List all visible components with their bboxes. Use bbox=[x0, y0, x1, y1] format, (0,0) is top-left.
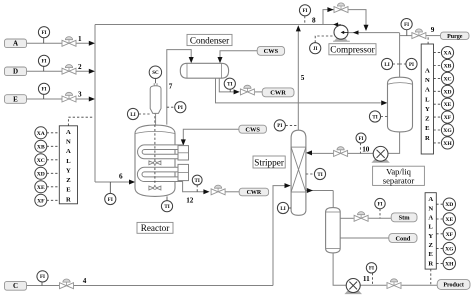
svg-text:D: D bbox=[13, 68, 18, 76]
svg-text:CWR: CWR bbox=[270, 90, 286, 97]
svg-text:E: E bbox=[13, 95, 18, 103]
svg-text:FI: FI bbox=[378, 202, 383, 207]
svg-text:FI: FI bbox=[40, 275, 45, 280]
svg-text:A: A bbox=[66, 148, 71, 155]
svg-text:CWS: CWS bbox=[245, 127, 260, 134]
svg-text:E: E bbox=[66, 187, 71, 194]
svg-text:L: L bbox=[425, 96, 430, 103]
svg-text:R: R bbox=[428, 260, 433, 267]
svg-text:CWR: CWR bbox=[247, 190, 262, 196]
svg-text:PI: PI bbox=[409, 63, 414, 68]
svg-text:XA: XA bbox=[443, 51, 451, 57]
svg-text:LI: LI bbox=[130, 113, 135, 118]
svg-text:PI: PI bbox=[277, 124, 282, 129]
svg-text:5: 5 bbox=[301, 74, 305, 82]
svg-text:FI: FI bbox=[303, 9, 308, 14]
svg-text:XF: XF bbox=[37, 198, 45, 204]
svg-text:XD: XD bbox=[443, 89, 451, 95]
svg-text:A: A bbox=[425, 87, 430, 94]
svg-text:PI: PI bbox=[178, 106, 183, 111]
svg-text:XG: XG bbox=[445, 247, 454, 253]
svg-text:Z: Z bbox=[66, 177, 71, 184]
svg-text:JI: JI bbox=[313, 47, 318, 52]
svg-text:XF: XF bbox=[446, 232, 454, 238]
svg-text:XE: XE bbox=[444, 102, 452, 108]
svg-text:Purge: Purge bbox=[447, 34, 463, 40]
svg-text:9: 9 bbox=[431, 26, 435, 34]
svg-text:Y: Y bbox=[66, 167, 71, 174]
svg-text:CWS: CWS bbox=[264, 48, 279, 55]
svg-text:Z: Z bbox=[428, 242, 433, 249]
svg-text:FI: FI bbox=[42, 31, 47, 36]
svg-text:LI: LI bbox=[384, 63, 389, 68]
svg-text:10: 10 bbox=[362, 146, 370, 154]
svg-text:1: 1 bbox=[78, 35, 82, 43]
svg-text:FI: FI bbox=[404, 23, 409, 28]
svg-text:Stm: Stm bbox=[399, 215, 411, 222]
svg-text:A: A bbox=[428, 196, 433, 203]
svg-text:TI: TI bbox=[195, 179, 200, 184]
svg-text:A: A bbox=[425, 67, 430, 74]
svg-text:LI: LI bbox=[280, 207, 285, 212]
svg-text:TI: TI bbox=[164, 205, 169, 210]
svg-text:SC: SC bbox=[152, 71, 159, 76]
svg-text:A: A bbox=[66, 129, 71, 136]
svg-text:XA: XA bbox=[37, 131, 45, 137]
svg-text:N: N bbox=[428, 205, 433, 212]
svg-text:12: 12 bbox=[186, 197, 194, 205]
svg-text:XB: XB bbox=[37, 144, 45, 150]
svg-text:XE: XE bbox=[37, 185, 45, 191]
svg-text:FI: FI bbox=[108, 198, 113, 203]
svg-text:R: R bbox=[66, 196, 71, 203]
svg-text:separator: separator bbox=[383, 175, 415, 185]
svg-text:Y: Y bbox=[428, 233, 433, 240]
svg-text:6: 6 bbox=[119, 172, 123, 180]
svg-text:XF: XF bbox=[444, 115, 452, 121]
svg-text:E: E bbox=[425, 125, 430, 132]
svg-text:A: A bbox=[13, 40, 18, 48]
svg-text:4: 4 bbox=[83, 277, 87, 285]
svg-text:TI: TI bbox=[227, 83, 232, 88]
svg-text:XH: XH bbox=[443, 141, 452, 147]
svg-text:Condenser: Condenser bbox=[190, 35, 229, 45]
svg-text:XG: XG bbox=[443, 128, 452, 134]
svg-text:XD: XD bbox=[37, 171, 45, 177]
svg-text:Z: Z bbox=[425, 116, 430, 123]
svg-text:8: 8 bbox=[312, 17, 316, 25]
svg-text:C: C bbox=[13, 282, 18, 290]
svg-text:2: 2 bbox=[78, 63, 82, 71]
svg-text:Cond: Cond bbox=[395, 235, 410, 242]
svg-text:N: N bbox=[66, 139, 71, 146]
svg-text:Y: Y bbox=[425, 106, 430, 113]
svg-text:XD: XD bbox=[445, 202, 453, 208]
svg-text:XH: XH bbox=[445, 261, 454, 267]
svg-text:XC: XC bbox=[443, 76, 451, 82]
svg-text:A: A bbox=[428, 215, 433, 222]
svg-text:Reactor: Reactor bbox=[141, 223, 170, 233]
svg-text:3: 3 bbox=[78, 91, 82, 99]
svg-text:Compressor: Compressor bbox=[330, 45, 374, 55]
svg-text:TI: TI bbox=[317, 173, 322, 178]
svg-text:XC: XC bbox=[37, 158, 45, 164]
svg-text:Stripper: Stripper bbox=[254, 157, 284, 167]
svg-text:L: L bbox=[428, 224, 433, 231]
svg-text:N: N bbox=[425, 77, 430, 84]
svg-text:7: 7 bbox=[169, 83, 173, 91]
svg-text:E: E bbox=[428, 251, 433, 258]
svg-text:FI: FI bbox=[42, 60, 47, 65]
svg-text:XE: XE bbox=[445, 217, 453, 223]
svg-text:FI: FI bbox=[369, 267, 374, 272]
svg-text:FI: FI bbox=[42, 88, 47, 93]
svg-text:R: R bbox=[425, 135, 430, 142]
svg-text:XB: XB bbox=[444, 64, 452, 70]
svg-text:FI: FI bbox=[359, 137, 364, 142]
svg-text:L: L bbox=[66, 158, 71, 165]
svg-text:Product: Product bbox=[443, 283, 464, 289]
svg-text:11: 11 bbox=[363, 275, 370, 283]
svg-text:TI: TI bbox=[372, 115, 377, 120]
